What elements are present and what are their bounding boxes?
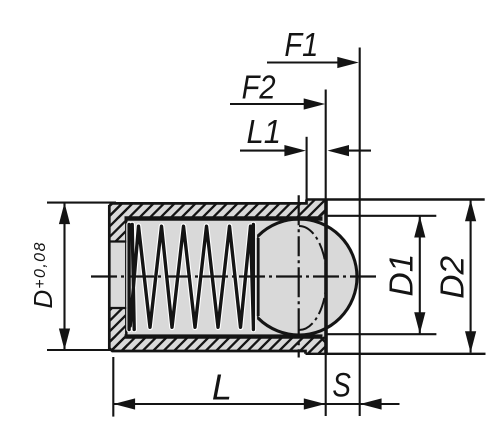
svg-text:L: L (212, 367, 232, 408)
extension line L1 / lip left (306, 137, 308, 200)
ball fill (241, 219, 357, 335)
ball meridian dash-dot ellipse arc (299, 226, 327, 330)
right face top chamfer (321, 211, 326, 216)
right face bottom chamfer (321, 338, 326, 343)
cavity bottom thick line (125, 334, 323, 338)
body bottom edge (109, 348, 305, 354)
svg-text:D2: D2 (434, 256, 471, 299)
cap slot top line (109, 240, 126, 242)
cavity top thick line (125, 216, 323, 220)
dimension F1 line (267, 61, 352, 63)
dimension S right arrowhead (360, 398, 382, 409)
extension line D1 top (327, 215, 437, 217)
body left outer edge (108, 205, 111, 349)
hatch top wall band (109, 200, 326, 219)
dimension L1 line right tail (345, 150, 371, 152)
ball outline (241, 219, 357, 335)
hatch bottom wall band (109, 337, 326, 354)
extension line D1 bottom (327, 333, 436, 335)
body fill (grey block of plunger sleeve) (109, 200, 326, 354)
dimension F2 line (230, 103, 318, 105)
dimension D2 line (470, 200, 472, 353)
ball flat chord line (spring contact) (257, 238, 260, 316)
extension line L left (112, 357, 114, 417)
dimension F2 arrowhead (304, 98, 326, 109)
dimension D line (63, 203, 65, 350)
dimension F1 arrowhead (337, 57, 359, 68)
extension line F2 / body end upper (325, 90, 327, 200)
dimension L1 right arrowhead (328, 145, 350, 156)
svg-text:D1: D1 (384, 254, 421, 297)
dimension D1 label (384, 254, 421, 297)
dimension D up arrowhead (59, 203, 70, 225)
extension line F1 / ball tip (359, 48, 361, 417)
cap inner face line (125, 219, 128, 337)
extension line body end lower (325, 354, 327, 416)
horizontal centerline (91, 275, 377, 277)
dimension D2 down arrowhead (465, 331, 476, 353)
lip top edge + D2 top extension (307, 198, 485, 200)
lip bottom edge + D2 bottom extension (306, 353, 486, 355)
ball vertical centerline (298, 195, 300, 357)
dimension D label (28, 241, 58, 308)
dimension D1 line (419, 216, 421, 333)
dimension D1 down arrowhead (414, 312, 425, 334)
body right outer edge (324, 200, 328, 354)
hatch left cap top segment (109, 203, 127, 242)
cap slot bottom line (109, 307, 126, 309)
dimension L1 line left (240, 150, 300, 152)
dimension D1 up arrowhead (414, 216, 425, 238)
spring coil black core (129, 225, 253, 330)
dimension D2 label (434, 256, 471, 299)
svg-text:F1: F1 (284, 27, 318, 64)
dimension L left arrowhead (114, 398, 136, 409)
body top edge (109, 200, 306, 207)
dimension L right arrowhead (304, 398, 326, 409)
dimension D down arrowhead (59, 329, 70, 351)
spring casing (white outline of coil) (129, 225, 253, 330)
svg-text:L1: L1 (247, 114, 282, 151)
svg-text:F2: F2 (242, 70, 276, 107)
hatch left cap bottom segment (109, 308, 127, 352)
dimension D2 up arrowhead (465, 200, 476, 222)
extension line D bottom (47, 349, 112, 351)
extension line D top (47, 202, 116, 204)
bottom dimension line L and S (114, 403, 400, 405)
svg-text:S: S (332, 366, 351, 404)
dimension L1 left arrowhead (284, 145, 306, 156)
